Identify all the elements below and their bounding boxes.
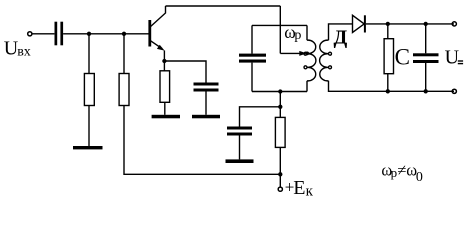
- diode VD triangle: [353, 15, 365, 32]
- wire C out top: [425, 24, 427, 53]
- resistor Re (emitter): [160, 71, 170, 103]
- wire emitter down: [163, 51, 165, 62]
- resistor R2: [119, 74, 129, 106]
- svg-text:p: p: [294, 28, 301, 43]
- tap arrowhead: [299, 51, 306, 56]
- wire R2 to bottom rail: [124, 106, 280, 175]
- tank top wire: [252, 24, 307, 26]
- wire R1 top: [88, 34, 90, 74]
- stub to +Ek terminal: [279, 174, 281, 187]
- +Ek terminal: [278, 187, 282, 191]
- tank capacitor Ck: [239, 54, 266, 63]
- wire C out bottom: [425, 63, 427, 91]
- node base-R1: [87, 32, 91, 36]
- wire R load top: [387, 24, 389, 39]
- svg-text:к: к: [306, 183, 314, 199]
- resistor R1: [84, 74, 94, 106]
- wire R1 bottom: [88, 106, 90, 147]
- tap wire: [280, 52, 301, 54]
- input terminal: [28, 32, 32, 36]
- wire emitter to Re: [163, 61, 165, 71]
- node bottom rail: [278, 172, 282, 176]
- wire tank bottom down: [279, 92, 281, 118]
- inductor L2 secondary coil: [320, 40, 332, 81]
- svg-text:p: p: [391, 165, 398, 180]
- transistor VT1 base bar: [148, 20, 151, 47]
- wire Re to ground: [164, 102, 166, 115]
- tank left wire lower: [251, 63, 253, 92]
- node bottom C out: [424, 89, 428, 93]
- inductor L1 primary coil: [304, 40, 316, 81]
- wire emitter to Ce: [164, 61, 206, 83]
- transistor VT1 collector: [151, 6, 166, 27]
- wire input to C1: [32, 33, 54, 35]
- inductor L2 lead bottom: [329, 81, 455, 92]
- ground G3: [192, 115, 220, 119]
- node top R load: [386, 22, 390, 26]
- svg-text:0: 0: [416, 170, 423, 185]
- ground G1: [73, 146, 103, 149]
- wire C2 top: [240, 107, 281, 127]
- resistor R load: [384, 39, 393, 74]
- node top C out: [424, 22, 428, 26]
- output terminal top: [452, 22, 456, 26]
- svg-text:Д: Д: [334, 27, 348, 49]
- feed line down to tap: [279, 6, 281, 53]
- capacitor Ce (emitter bypass): [194, 83, 219, 92]
- transformer secondary L2 lead top: [329, 24, 353, 40]
- wire C1 to base: [63, 33, 149, 35]
- wire R load bottom: [387, 74, 389, 92]
- node C2 junction: [278, 105, 282, 109]
- inductor L1 primary lead top: [306, 25, 308, 40]
- node emitter: [162, 59, 166, 63]
- emitter arrowhead: [157, 45, 165, 51]
- capacitor C2 (decoupling): [227, 127, 252, 136]
- node base-R2: [122, 32, 126, 36]
- node bottom R load: [386, 89, 390, 93]
- tank bottom wire: [252, 91, 307, 93]
- inductor L1 primary lead bottom: [306, 81, 308, 92]
- svg-text:E: E: [293, 177, 305, 199]
- tap node dot: [305, 52, 309, 56]
- wire C2 to ground: [239, 136, 241, 160]
- top rail collector to feed: [166, 5, 281, 7]
- output terminal bottom: [452, 89, 456, 93]
- diode cathode bar: [364, 15, 366, 32]
- capacitor C out: [413, 53, 439, 63]
- ground G4: [226, 159, 254, 163]
- capacitor C1 (coupling): [55, 22, 64, 46]
- wire Ce to ground: [205, 92, 207, 115]
- wire R2 top: [123, 34, 125, 74]
- resistor R3 (decoupling): [275, 117, 285, 147]
- wire diode to output: [366, 23, 454, 25]
- svg-text:≠: ≠: [397, 161, 406, 180]
- wire R3 to rail: [279, 147, 281, 174]
- svg-text:U: U: [445, 47, 460, 69]
- transistor VT1 emitter: [151, 41, 162, 49]
- svg-text:C: C: [395, 45, 410, 70]
- node tank bottom: [278, 89, 282, 93]
- tank left wire upper: [251, 25, 253, 53]
- ground G2: [152, 115, 180, 119]
- svg-text:вх: вх: [17, 45, 31, 60]
